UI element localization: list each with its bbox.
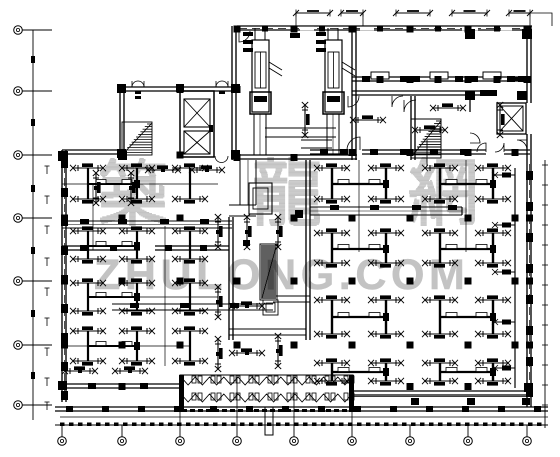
left main duct run bbox=[62, 221, 232, 228]
fan coil cluster left bbox=[136, 283, 138, 311]
door corridor 2 bbox=[392, 96, 403, 107]
wall stub x470 bbox=[469, 96, 471, 112]
fan coil unit bbox=[422, 295, 458, 303]
upper-left exterior wall segment bbox=[62, 150, 120, 154]
canopy post pairs row 1 bbox=[192, 376, 196, 383]
fan coil connector bar left bbox=[88, 183, 137, 185]
fan coil cluster left bbox=[87, 168, 89, 199]
entrance riser below wall bbox=[265, 407, 273, 435]
fan coil connector bar bbox=[440, 183, 493, 185]
fan coil unit bbox=[244, 214, 252, 250]
corner column top-left bbox=[58, 151, 68, 161]
fan coil unit bbox=[475, 163, 511, 171]
fan coil cluster left bbox=[189, 331, 191, 361]
top dimension segments bbox=[296, 12, 330, 14]
fan coil unit bbox=[422, 228, 458, 236]
large top wall columns bbox=[465, 29, 475, 39]
fan coil unit bbox=[93, 170, 101, 206]
fan coil unit bbox=[368, 163, 404, 171]
fan coil unit upper room bbox=[497, 102, 505, 138]
escalator core center bbox=[260, 244, 277, 300]
fan coil unit upper room bbox=[430, 103, 466, 111]
elevator cab 1 bbox=[184, 99, 210, 127]
corridor left wall bbox=[229, 217, 233, 340]
fan coil cluster bbox=[492, 300, 494, 334]
fan coil unit bbox=[275, 214, 283, 250]
interior wall y246 left bbox=[62, 246, 140, 250]
corner column bottom-left bbox=[58, 381, 67, 390]
bottom axis circle 1 bbox=[58, 437, 67, 446]
fan coil cluster bbox=[439, 363, 441, 381]
left axis circle 1 bbox=[14, 26, 23, 35]
double door top-left block 2 bbox=[216, 81, 228, 87]
canopy dash strip bbox=[182, 409, 187, 412]
window 1 bbox=[371, 72, 389, 79]
fan coil cluster bbox=[331, 168, 333, 199]
stair center rail right bbox=[426, 140, 428, 166]
top wall window slots bbox=[462, 27, 478, 31]
left axis circle 7 bbox=[14, 401, 23, 410]
fan coil unit bbox=[215, 336, 223, 372]
fan coil unit bbox=[145, 165, 181, 173]
fan coil connector bar bbox=[440, 371, 493, 373]
fan coil unit bbox=[70, 278, 106, 286]
banquet wall with windows bbox=[352, 77, 529, 81]
fan coil unit bbox=[368, 228, 404, 236]
fan coil unit bbox=[119, 326, 155, 334]
AHU fan box right bbox=[323, 92, 344, 114]
fan coil cluster bbox=[385, 168, 387, 199]
fan coil unit bbox=[368, 358, 404, 366]
watermark character 網 bbox=[409, 157, 475, 226]
structural columns bbox=[234, 26, 241, 33]
fan coil cluster left bbox=[189, 283, 191, 311]
fan coil unit bbox=[128, 170, 136, 206]
canopy zigzag row 1 bbox=[181, 377, 352, 385]
fan coil cluster bbox=[331, 233, 333, 263]
door room x470 bbox=[470, 133, 480, 143]
corridor wall below banquet bbox=[352, 91, 497, 95]
AHU vertical duct right bbox=[327, 114, 339, 155]
door AHU room bbox=[239, 31, 250, 42]
left axis tick marks bbox=[31, 56, 35, 63]
fan coil unit bbox=[215, 284, 223, 320]
fan coil cluster bbox=[439, 168, 441, 199]
right exterior wall upper bbox=[527, 26, 531, 103]
fan coil cluster bbox=[385, 363, 387, 381]
fan coil connector bar bbox=[332, 371, 386, 373]
AHU top stub left bbox=[255, 28, 265, 40]
corridor junction block bbox=[243, 240, 250, 246]
fan coil unit bbox=[275, 333, 283, 369]
left exterior wall bbox=[62, 150, 66, 402]
fan coil cluster left bbox=[136, 168, 138, 199]
top dimension risers bbox=[295, 13, 297, 26]
fan coil cluster bbox=[331, 363, 333, 381]
fan coil unit bbox=[314, 163, 350, 171]
fan coil unit bbox=[475, 358, 511, 366]
interior wall x411 bbox=[411, 96, 415, 160]
AHU branch right bbox=[342, 62, 355, 70]
corridor supply duct vertical bbox=[240, 160, 256, 205]
fan coil cluster bbox=[385, 300, 387, 334]
bottom axis circle 5 bbox=[290, 437, 299, 446]
double door below elevators bbox=[215, 156, 228, 163]
top exterior wall bbox=[237, 26, 532, 30]
fan coil cluster bbox=[439, 233, 441, 263]
fan coil cluster left bbox=[87, 231, 89, 259]
fan coil unit upper room bbox=[412, 125, 448, 133]
fan coil unit bbox=[189, 165, 225, 173]
fan coil cluster bbox=[492, 233, 494, 263]
right exterior wall lower bbox=[527, 162, 531, 407]
fan coil connector bar left bbox=[88, 245, 137, 247]
corridor duct elbow bbox=[229, 205, 256, 216]
left wall column blocks bbox=[61, 159, 68, 168]
center lower duct bbox=[229, 329, 306, 335]
fan coil cluster bbox=[439, 300, 441, 334]
left axis circle 5 bbox=[14, 277, 23, 286]
AHU cross duct bbox=[265, 128, 336, 137]
door room x411 bbox=[404, 100, 416, 112]
left axis circle 2 bbox=[14, 87, 23, 96]
watermark character 龍 bbox=[254, 157, 320, 226]
corridor right wall bbox=[306, 160, 310, 340]
AHU room right wall bbox=[352, 26, 356, 160]
right dimension line bbox=[544, 160, 546, 428]
stub duct right of corridor bbox=[273, 296, 310, 302]
fan coil cluster left bbox=[87, 331, 89, 361]
stair core right bbox=[411, 119, 441, 158]
AHU inlet grille marks bbox=[243, 32, 253, 36]
top right corner bracket bbox=[530, 13, 552, 26]
fan coil connector bar bbox=[332, 316, 386, 318]
fan coil cluster bbox=[385, 233, 387, 263]
canopy post pairs row 2 bbox=[192, 393, 196, 400]
fan coil unit bbox=[70, 226, 106, 234]
fan coil cluster left bbox=[136, 331, 138, 361]
left axis circle 3 bbox=[14, 151, 23, 160]
stair core top-left bbox=[122, 122, 152, 155]
AHU top stub right bbox=[328, 28, 338, 40]
fan coil unit bbox=[62, 366, 98, 374]
left lower duct run bbox=[112, 304, 273, 310]
AHU duct column left bbox=[252, 40, 269, 112]
AHU branch left bbox=[269, 62, 282, 70]
escalator lower landing bbox=[263, 300, 278, 315]
corner column bottom-right bbox=[524, 383, 533, 392]
bottom plinth line bbox=[60, 416, 548, 418]
fan coil cluster bbox=[492, 168, 494, 199]
bottom axis circle 6 bbox=[348, 437, 357, 446]
window 3 bbox=[483, 72, 501, 79]
right exterior wall mid bbox=[527, 134, 531, 162]
bottom interior wall right segment bbox=[353, 391, 532, 395]
fan coil connector bar bbox=[332, 183, 386, 185]
fan coil unit bbox=[314, 358, 350, 366]
right main duct run bbox=[310, 207, 462, 215]
right wall fan coil branches bbox=[494, 174, 515, 176]
fan coil cluster bbox=[331, 300, 333, 334]
bottom exterior wall bbox=[55, 407, 548, 411]
bottom dimension tick marks bbox=[60, 423, 65, 427]
canopy right post bbox=[349, 375, 354, 412]
fan coil unit bbox=[215, 214, 223, 250]
fan coil cluster left bbox=[189, 168, 191, 199]
watermark character 築 bbox=[100, 158, 166, 226]
door corridor 1 bbox=[348, 96, 359, 107]
axis riser lines through canopy bbox=[179, 377, 181, 425]
door right room 1 bbox=[347, 137, 360, 150]
top-left block top wall bbox=[120, 87, 237, 91]
top wall column blocks bbox=[262, 26, 268, 32]
fan coil unit bbox=[70, 163, 106, 171]
left axis circle 4 bbox=[14, 214, 23, 223]
fan coil unit bbox=[314, 228, 350, 236]
fan coil cluster bbox=[492, 363, 494, 381]
door right wall bbox=[517, 140, 527, 150]
double door top-left block 1 bbox=[132, 81, 144, 87]
fan coil unit bbox=[119, 278, 155, 286]
right field riser lines bbox=[358, 160, 360, 252]
left band connector lines bbox=[62, 183, 218, 185]
AHU room left wall bbox=[232, 26, 236, 160]
fan coil unit bbox=[314, 295, 350, 303]
fan coil connector bar bbox=[332, 248, 386, 250]
bottom dimension line bbox=[55, 424, 548, 426]
left dimension ticks bbox=[46, 166, 48, 174]
fan coil unit bbox=[119, 163, 155, 171]
fan coil unit bbox=[119, 226, 155, 234]
fan coil unit upper room bbox=[350, 115, 386, 123]
elevator core right bbox=[497, 103, 526, 134]
fan coil cluster left bbox=[136, 231, 138, 259]
bottom axis circle 7 bbox=[406, 437, 415, 446]
AHU room bottom wall bbox=[232, 155, 357, 159]
fan coil unit bbox=[172, 278, 208, 286]
left field riser line 2 bbox=[164, 226, 166, 366]
canopy left post bbox=[179, 375, 184, 412]
bottom axis circle 8 bbox=[464, 437, 473, 446]
fan coil unit bbox=[422, 358, 458, 366]
left axis line bbox=[32, 30, 34, 420]
right wall column blocks bbox=[526, 171, 533, 180]
fan coil unit bbox=[475, 228, 511, 236]
fan coil connector bar left bbox=[88, 345, 137, 347]
elevator cab 2 bbox=[184, 131, 210, 154]
fan coil connector bar left bbox=[88, 296, 137, 298]
fan coil unit bbox=[172, 326, 208, 334]
left field riser line bbox=[92, 183, 94, 250]
door right lobby 2 bbox=[495, 143, 504, 152]
corridor duct junction box bbox=[249, 183, 272, 214]
bottom axis circle 9 bbox=[523, 437, 532, 446]
AHU fan box left bbox=[250, 92, 271, 114]
fan coil cluster left bbox=[189, 231, 191, 259]
fan coil connector bar bbox=[440, 248, 493, 250]
fan coil unit bbox=[112, 366, 148, 374]
bottom axis circle 3 bbox=[176, 437, 185, 446]
canopy zigzag row 2 bbox=[181, 394, 352, 402]
fan coil unit bbox=[229, 348, 265, 356]
bottom axis circle 2 bbox=[118, 437, 127, 446]
window 2 bbox=[430, 72, 448, 79]
fan coil cluster left bbox=[87, 283, 89, 311]
fan coil unit bbox=[368, 295, 404, 303]
fan coil unit bbox=[70, 326, 106, 334]
left axis circle 6 bbox=[14, 341, 23, 350]
interior wall y150 right part bbox=[310, 150, 348, 154]
bottom axis circle 4 bbox=[233, 437, 242, 446]
entrance canopy outline bbox=[180, 375, 353, 407]
AHU vertical duct left bbox=[254, 114, 266, 155]
fan coil unit bbox=[229, 301, 265, 309]
fan coil unit bbox=[475, 295, 511, 303]
fan coil unit bbox=[172, 226, 208, 234]
AHU lower duct bbox=[301, 140, 332, 148]
svg-text:ZHULONG.COM: ZHULONG.COM bbox=[94, 251, 469, 299]
elevator door tab bbox=[209, 125, 213, 132]
fan coil unit bbox=[172, 163, 208, 171]
fan coil connector bar bbox=[440, 316, 493, 318]
top-left block left wall bbox=[120, 87, 124, 150]
right interior wall line bbox=[514, 168, 516, 388]
bottom interior wall left segment bbox=[62, 384, 183, 388]
fan coil unit bbox=[422, 163, 458, 171]
fan coil unit upper room bbox=[302, 102, 310, 138]
door right lobby 1 bbox=[477, 143, 486, 152]
AHU duct column right bbox=[325, 40, 342, 112]
elevator core top-left enclosure bbox=[180, 91, 214, 157]
